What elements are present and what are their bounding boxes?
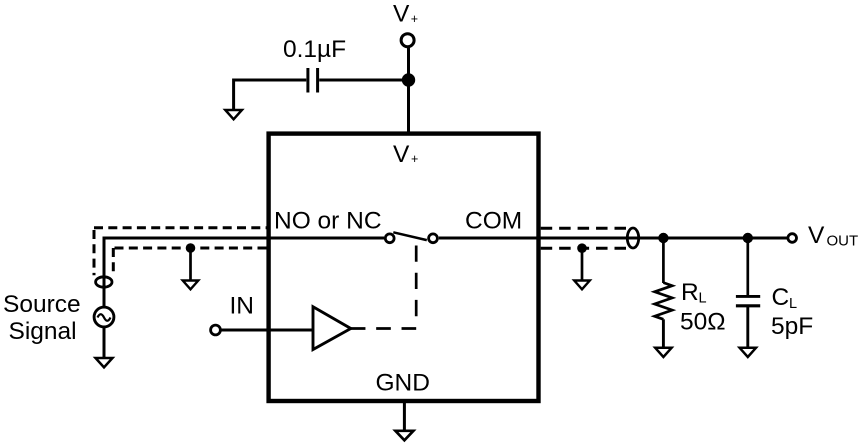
svg-text:L: L <box>789 296 797 312</box>
ground arrow (GND pin) <box>395 431 413 441</box>
svg-text:5pF: 5pF <box>771 313 813 340</box>
switch SW1 <box>385 232 437 242</box>
wire RL bottom <box>662 319 665 348</box>
shield ground junction right <box>577 243 587 253</box>
ground arrow (left shield) <box>183 248 199 289</box>
wire NO/NC to switch <box>104 237 384 240</box>
label CL <box>772 284 798 312</box>
wire source conductor vertical <box>103 237 106 307</box>
wire bypass left segment <box>234 79 307 82</box>
coax end ellipse left <box>96 277 112 287</box>
wire V+ vertical <box>407 47 410 134</box>
svg-text:+: + <box>411 152 418 166</box>
node dot RL <box>658 233 668 243</box>
terminal VOUT <box>788 234 797 243</box>
svg-text:GND: GND <box>376 370 430 397</box>
label V+ top <box>393 1 418 28</box>
IC box U1 <box>269 134 539 401</box>
svg-text:50Ω: 50Ω <box>680 309 726 336</box>
svg-text:OUT: OUT <box>827 232 859 249</box>
coax shield left outer dashed vertical <box>93 230 96 275</box>
ground arrow (CL) <box>740 348 756 357</box>
coax shield right upper dashed <box>541 227 626 230</box>
svg-text:L: L <box>699 291 707 307</box>
terminal V+ top <box>401 34 414 47</box>
dashed control line vertical <box>415 246 418 317</box>
coax shield right lower dashed <box>541 247 626 250</box>
ground arrow (right shield) <box>574 248 590 289</box>
junction dot V+ <box>402 73 415 86</box>
ground arrow (bypass cap) <box>225 79 242 120</box>
dashed control line horizontal <box>351 327 416 330</box>
wire GND bottom <box>403 401 406 431</box>
ground arrow (source) <box>96 358 113 367</box>
svg-text:V: V <box>393 141 410 168</box>
resistor RL <box>655 283 673 320</box>
svg-text:V: V <box>808 222 825 249</box>
capacitor C1 0.1uF <box>308 68 318 93</box>
wire CL top <box>746 238 749 295</box>
wire bypass right segment <box>319 79 408 82</box>
svg-text:V: V <box>393 1 410 28</box>
coax shield left inner dashed horizontal <box>113 247 267 250</box>
shield ground junction left <box>186 243 196 253</box>
coax end ellipse right <box>627 228 638 248</box>
svg-text:COM: COM <box>465 208 522 235</box>
coax shield left outer dashed horizontal <box>94 226 267 229</box>
svg-text:NO or NC: NO or NC <box>274 208 382 235</box>
svg-text:Signal: Signal <box>9 318 77 345</box>
wire source to ground <box>103 327 106 358</box>
label Source Signal <box>3 291 81 345</box>
buffer driver U2 <box>313 307 351 350</box>
node dot CL <box>743 233 753 243</box>
coax shield left inner dashed vertical <box>112 248 115 273</box>
wire COM to VOUT <box>439 237 787 240</box>
capacitor CL <box>736 296 760 305</box>
svg-text:IN: IN <box>230 293 255 320</box>
terminal IN <box>211 325 221 335</box>
svg-text:C: C <box>772 284 790 311</box>
label VOUT <box>808 222 858 249</box>
svg-text:Source: Source <box>3 291 81 318</box>
svg-text:0.1µF: 0.1µF <box>283 36 346 63</box>
label V+ inside <box>393 141 418 168</box>
label RL <box>681 279 707 307</box>
ground arrow (RL) <box>655 348 671 357</box>
svg-text:R: R <box>681 279 699 306</box>
wire CL bottom <box>746 306 749 348</box>
source V1 <box>94 307 114 327</box>
wire IN <box>221 329 313 332</box>
svg-text:+: + <box>411 12 418 26</box>
wire RL top <box>662 238 665 283</box>
